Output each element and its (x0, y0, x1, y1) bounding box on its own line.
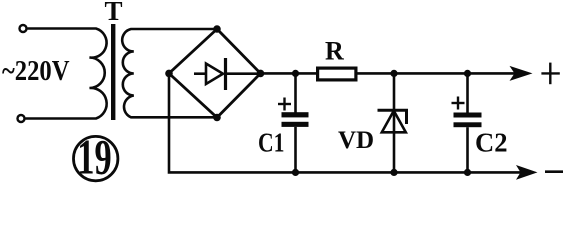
svg-text:C1: C1 (258, 128, 285, 158)
wire top rail left segment (261, 72, 318, 75)
wire top rail right segment (357, 72, 526, 75)
terminal top-left (20, 25, 27, 32)
capacitor C1 plates (282, 112, 309, 117)
diode inside bridge: cathode lead (227, 72, 258, 75)
wire C2 top (466, 73, 469, 112)
arrowhead minus output (516, 165, 538, 180)
zener diode VD cathode bar with hook (378, 110, 407, 124)
diode inside bridge: triangle (206, 64, 223, 85)
label minus (545, 170, 563, 173)
node left vertex (165, 70, 173, 78)
node below C1 (292, 169, 299, 176)
node above C1 (292, 70, 299, 77)
figure number circle 19 (74, 136, 118, 180)
zener diode VD triangle (382, 111, 406, 133)
wire VD vertical (393, 73, 396, 172)
node above VD (390, 70, 397, 77)
node bottom vertex (213, 114, 221, 122)
wire C1 top (294, 73, 297, 112)
svg-text:~220V: ~220V (2, 56, 70, 87)
arrowhead plus output (510, 66, 533, 81)
transformer core bar (111, 24, 115, 120)
node above C2 (464, 70, 471, 77)
diode inside bridge: cathode bar (224, 58, 227, 90)
svg-text:R: R (325, 37, 344, 66)
diode inside bridge: anode lead (194, 72, 206, 75)
svg-text:T: T (105, 0, 123, 26)
terminal bottom-left (18, 115, 25, 122)
node top vertex (213, 25, 221, 33)
transformer T secondary winding with wires to bridge (122, 29, 217, 117)
svg-text:19: 19 (77, 131, 111, 185)
svg-text:VD: VD (338, 127, 374, 154)
label plus (541, 63, 559, 85)
capacitor C1 plus mark (278, 98, 291, 111)
bridge rectifier diamond (169, 29, 261, 118)
wire C2 bottom (466, 127, 469, 172)
wire left vertex down and bottom rail (169, 73, 530, 172)
capacitor C2 plus mark (452, 97, 465, 110)
wire C1 bottom (294, 127, 297, 172)
node below C2 (464, 169, 471, 176)
transformer T primary winding with input wires (26, 29, 107, 119)
capacitor C2 plates (454, 113, 482, 118)
svg-text:C2: C2 (475, 128, 508, 158)
resistor R (318, 68, 356, 80)
node below VD (390, 169, 397, 176)
node right vertex (257, 70, 265, 78)
